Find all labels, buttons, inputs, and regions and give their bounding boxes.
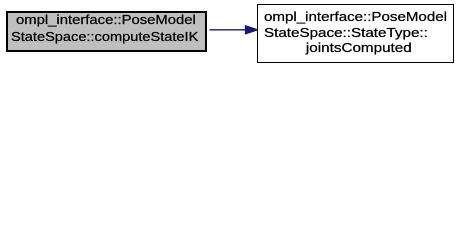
node: callee box (white) xyxy=(257,4,454,63)
node: caller box (gray, current function) xyxy=(6,11,207,52)
wire: call edge with arrowhead xyxy=(206,24,260,36)
